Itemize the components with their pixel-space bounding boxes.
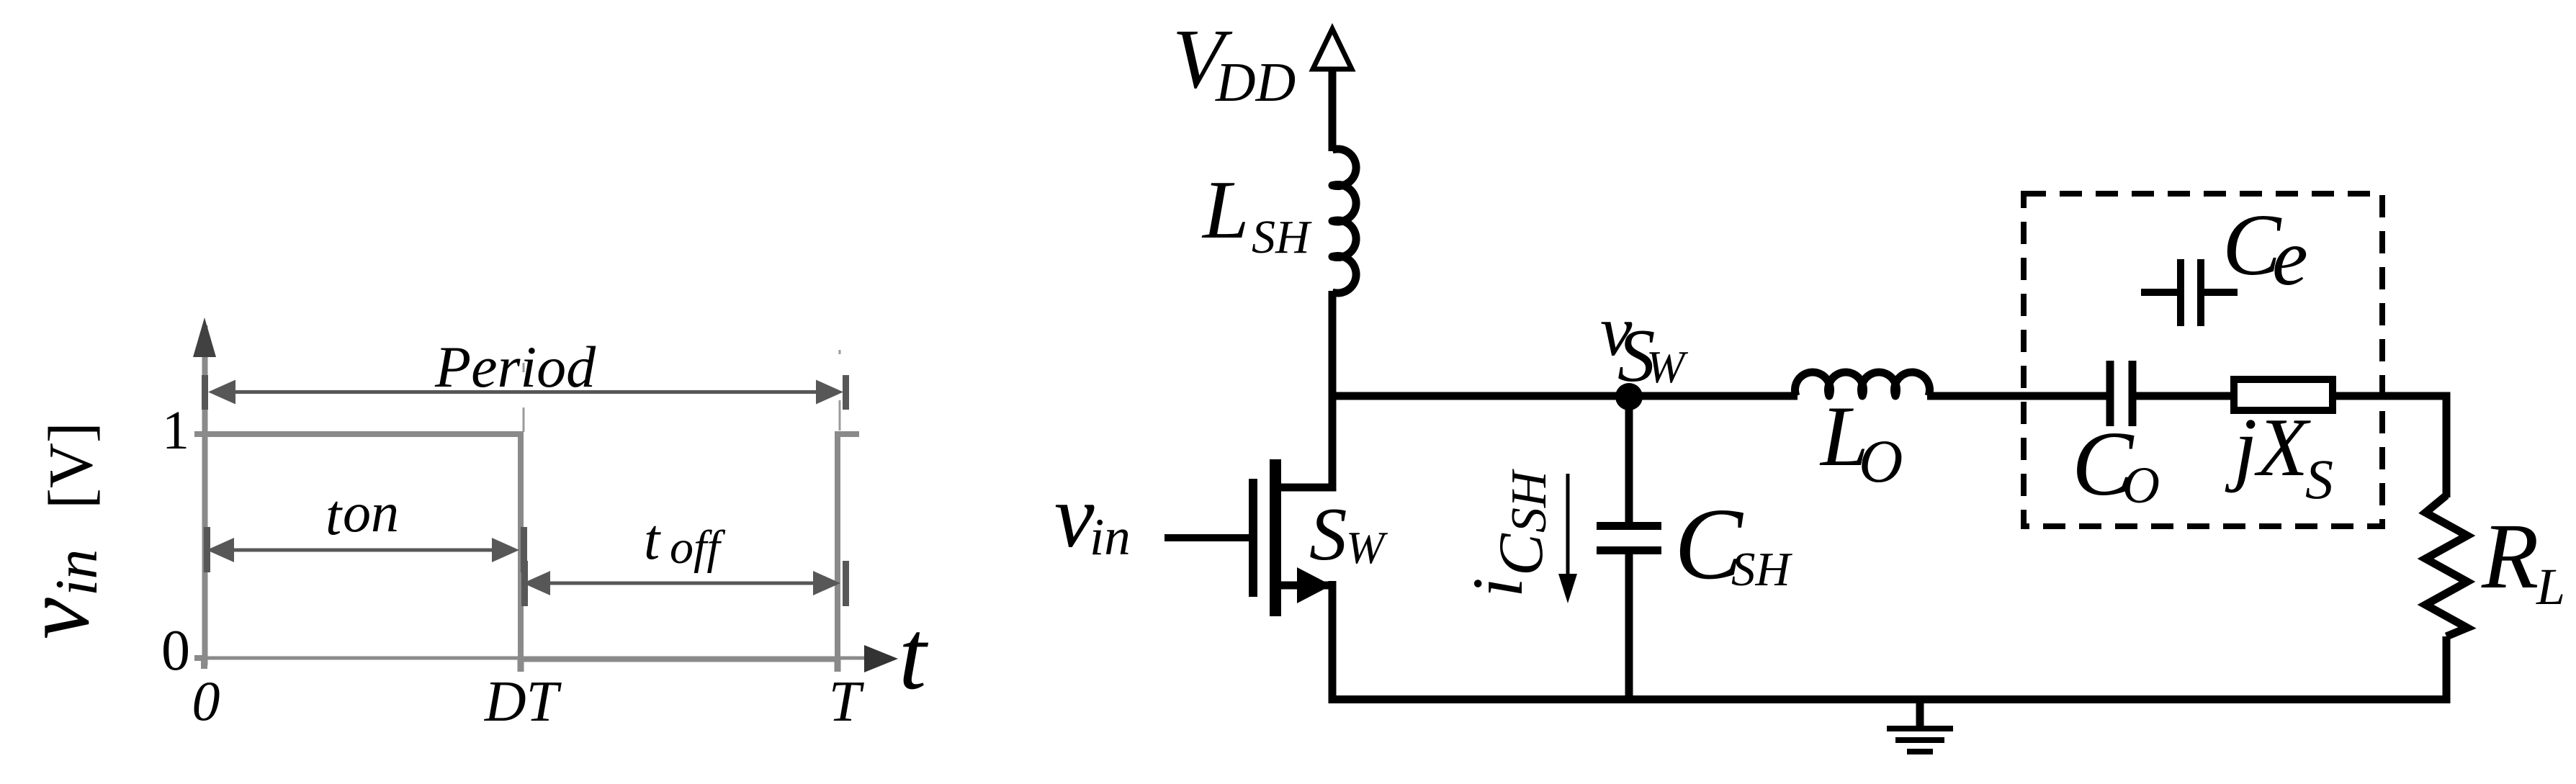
- svg-text:DT: DT: [484, 670, 562, 734]
- svg-text:SH: SH: [1502, 469, 1557, 533]
- svg-text:jX: jX: [2225, 402, 2311, 494]
- x tick at DT: [518, 658, 524, 672]
- y tick at 1: [194, 431, 206, 437]
- svg-text:in: in: [1090, 508, 1131, 566]
- svg-text:C: C: [1486, 533, 1556, 576]
- y tick at 0: [194, 655, 206, 661]
- svg-text:on: on: [343, 481, 399, 544]
- t_on dimension arrow: [204, 527, 527, 572]
- svg-text:S: S: [2305, 448, 2333, 510]
- ground bar 2: [1895, 737, 1944, 743]
- waveform falling edge at DT: [518, 431, 524, 662]
- capacitor C_SH bottom plate: [1597, 546, 1661, 554]
- svg-text:R: R: [2481, 505, 2539, 608]
- svg-text:O: O: [2122, 456, 2160, 514]
- current arrow i_CSH head: [1558, 574, 1577, 603]
- wire R_L to bottom rail: [2443, 636, 2451, 703]
- capacitor C_e left plate: [2177, 259, 2184, 326]
- waveform low segment: [518, 657, 840, 662]
- wire node down to C_SH: [1625, 397, 1633, 522]
- extension line at DT (lower dash): [523, 407, 525, 432]
- svg-text:[V]: [V]: [35, 422, 105, 509]
- x tick at T: [835, 658, 841, 672]
- y-axis: [202, 325, 208, 665]
- svg-text:t: t: [644, 508, 661, 572]
- svg-text:v: v: [5, 598, 109, 639]
- svg-text:W: W: [1346, 522, 1388, 573]
- capacitor C_O left plate: [2106, 361, 2114, 426]
- capacitor C_SH top plate: [1597, 522, 1661, 530]
- capacitor C_e left lead wire: [2141, 289, 2178, 296]
- wire L_O to C_O: [1927, 392, 2106, 400]
- ground bar 1: [1887, 726, 1953, 731]
- svg-text:DD: DD: [1215, 51, 1296, 113]
- bottom rail wire: [1329, 695, 2451, 703]
- transistor S_W channel bar: [1270, 459, 1281, 616]
- svg-text:off: off: [670, 521, 725, 574]
- node v_SW dot: [1615, 383, 1643, 410]
- waveform high segment: [205, 431, 524, 437]
- waveform stub after T: [835, 431, 859, 437]
- impedance box jX_S: [2234, 379, 2333, 410]
- svg-text:e: e: [2272, 213, 2308, 302]
- extension line at T (upper dash): [839, 350, 841, 354]
- extension line at T (lower dash): [839, 400, 841, 431]
- svg-text:SH: SH: [1731, 543, 1793, 596]
- svg-text:t: t: [326, 484, 343, 547]
- ground bar 3: [1907, 749, 1933, 754]
- capacitor C_O right plate: [2129, 361, 2137, 426]
- capacitor C_e right plate: [2197, 259, 2204, 326]
- current arrow i_CSH shaft: [1566, 474, 1570, 580]
- wire down to R_L: [2443, 392, 2451, 498]
- wire VDD to L_SH: [1329, 69, 1337, 151]
- svg-text:O: O: [1859, 428, 1903, 495]
- svg-text:SH: SH: [1252, 211, 1312, 263]
- transistor S_W drain lead: [1281, 484, 1337, 492]
- extension line at DT (upper dash): [523, 363, 525, 372]
- svg-text:v: v: [1054, 467, 1095, 567]
- svg-text:W: W: [1646, 341, 1689, 392]
- svg-text:in: in: [43, 549, 110, 596]
- label i_CSH (rotated): [1458, 469, 1557, 598]
- ground stem: [1916, 699, 1924, 729]
- t_off dimension arrow: [521, 561, 849, 606]
- x-axis arrowhead: [864, 645, 898, 672]
- Period dimension arrow: [202, 375, 849, 410]
- svg-text:S: S: [1309, 492, 1347, 576]
- svg-text:L: L: [2536, 558, 2565, 616]
- svg-text:t: t: [899, 600, 929, 710]
- svg-text:T: T: [829, 670, 865, 734]
- svg-text:0: 0: [161, 619, 190, 682]
- transistor S_W gate bar: [1249, 479, 1257, 597]
- waveform rising edge at T: [835, 431, 840, 662]
- wire L_SH down to drain corner: [1329, 291, 1337, 492]
- transistor S_W source arrow: [1297, 567, 1332, 603]
- wire C_SH to bottom rail: [1625, 554, 1633, 703]
- inductor L_O: [1795, 372, 1930, 396]
- svg-text:1: 1: [162, 400, 189, 461]
- y axis label v_in [V] (rotated): [5, 422, 110, 639]
- transistor S_W gate lead: [1164, 534, 1253, 541]
- wire source down to bottom rail: [1329, 581, 1337, 703]
- x tick at origin: [201, 658, 207, 669]
- wire C_O to jX_S: [2136, 392, 2234, 400]
- dashed tuning box: [2024, 194, 2382, 526]
- y-axis arrowhead: [193, 317, 216, 357]
- capacitor C_e right lead wire: [2204, 289, 2238, 296]
- svg-text:0: 0: [192, 670, 220, 732]
- transistor S_W source lead: [1281, 582, 1337, 590]
- svg-text:L: L: [1201, 164, 1249, 256]
- svg-text:i: i: [1458, 577, 1538, 598]
- resistor R_L: [2425, 495, 2467, 636]
- wire jX_S to right corner: [2333, 392, 2451, 400]
- x-axis: [202, 657, 892, 660]
- VDD power arrow: [1313, 29, 1352, 69]
- inductor L_SH: [1332, 149, 1356, 293]
- top horizontal wire to L_O: [1329, 392, 1798, 400]
- svg-text:Period: Period: [434, 334, 596, 400]
